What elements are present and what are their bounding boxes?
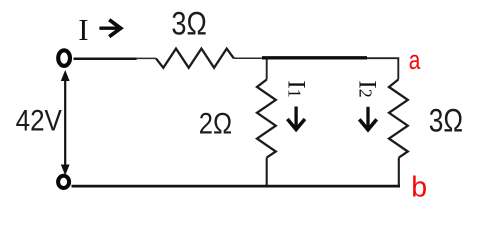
svg-text:a: a (409, 45, 421, 75)
svg-text:2Ω: 2Ω (199, 107, 232, 140)
svg-text:I1: I1 (282, 80, 311, 98)
svg-text:I: I (78, 12, 88, 47)
svg-text:I2: I2 (354, 80, 383, 98)
svg-text:3Ω: 3Ω (171, 5, 206, 41)
svg-text:42V: 42V (16, 105, 63, 138)
svg-text:3Ω: 3Ω (429, 103, 463, 139)
svg-text:b: b (411, 171, 427, 203)
